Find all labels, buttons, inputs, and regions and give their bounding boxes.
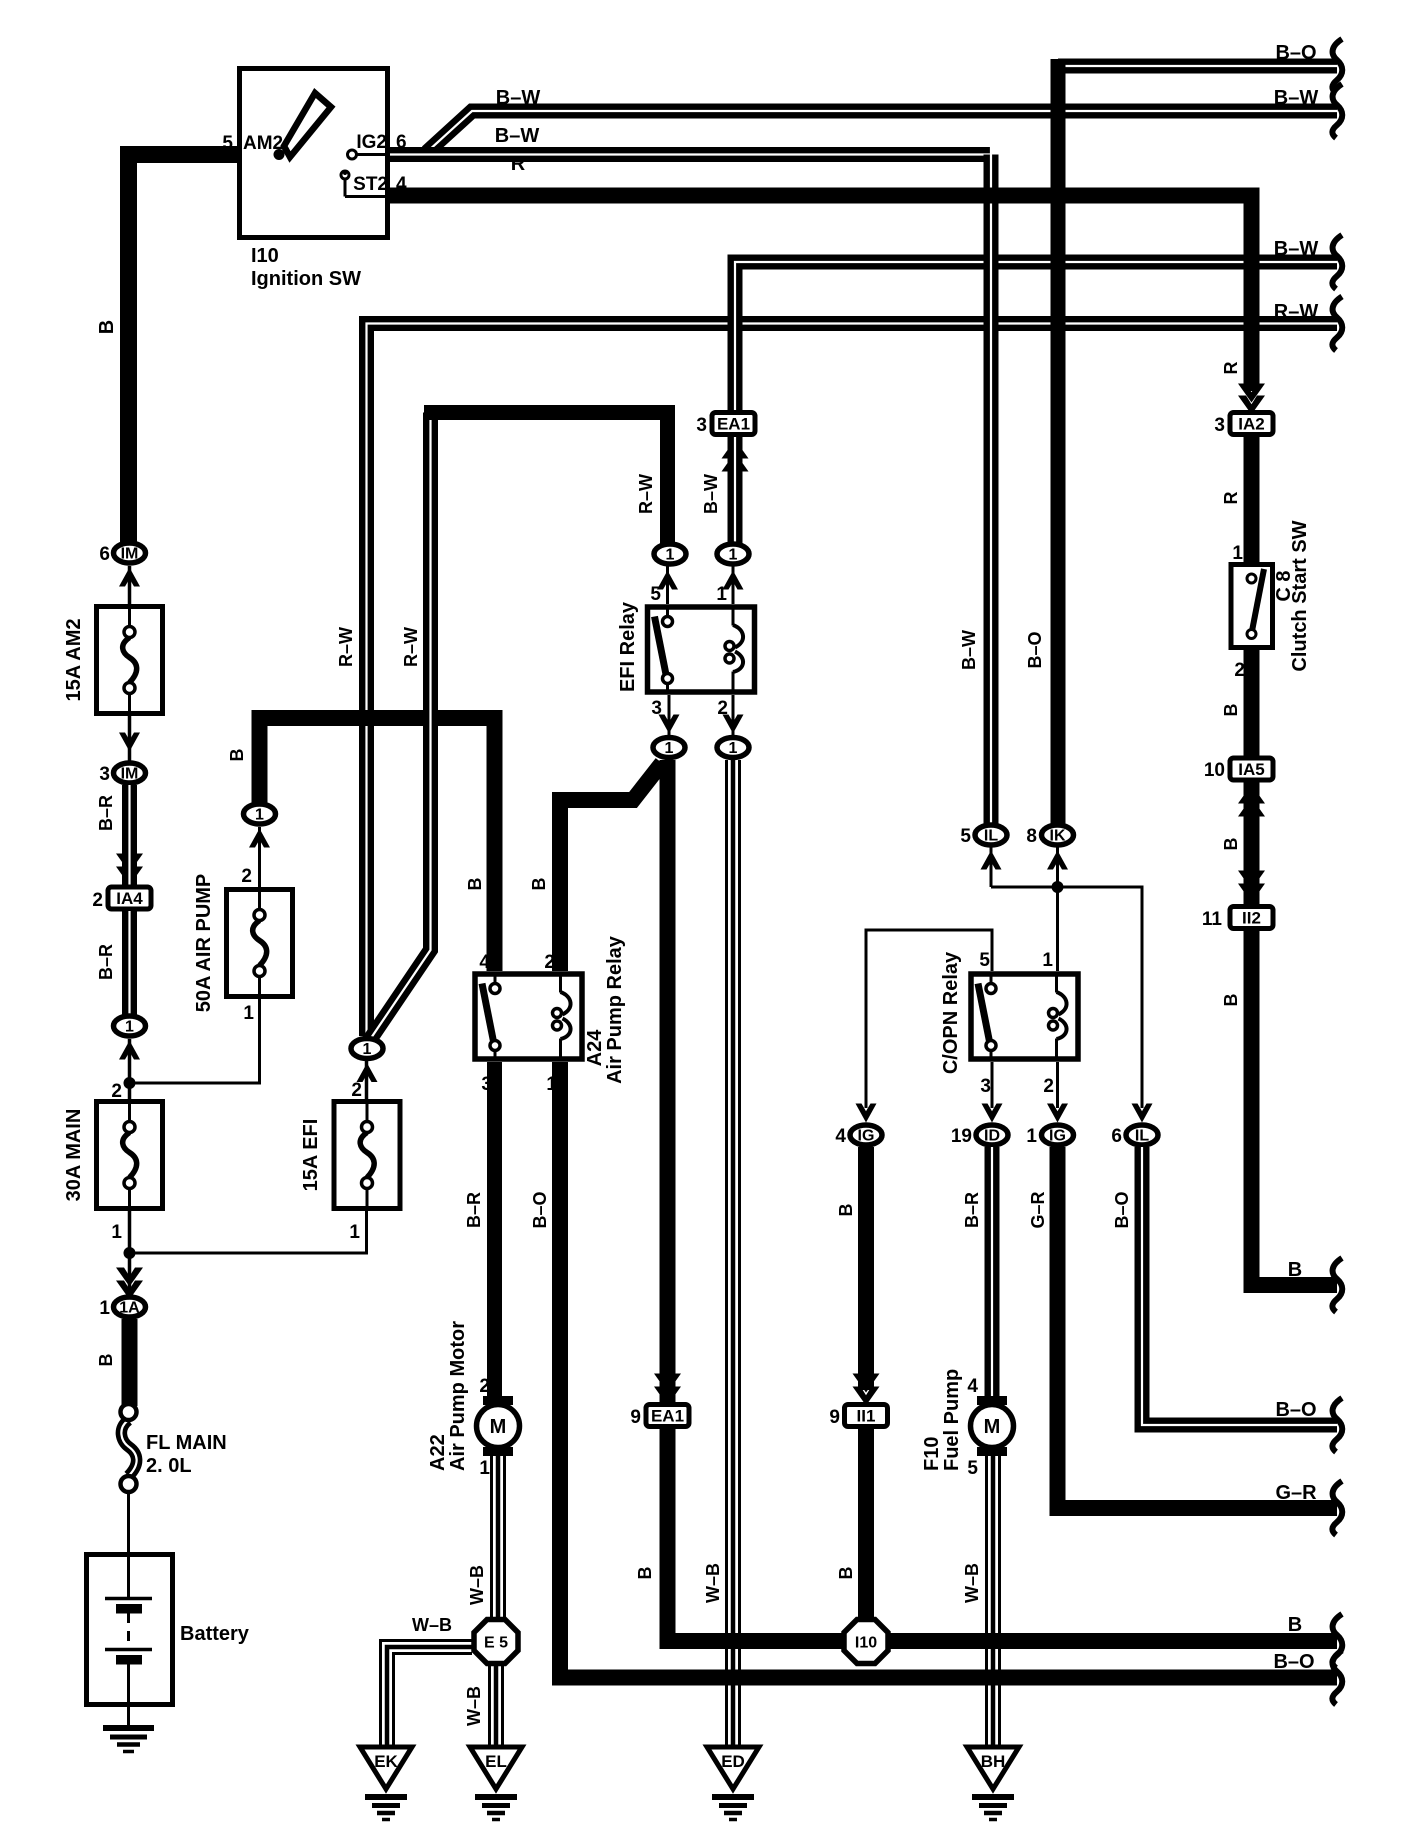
svg-text:4: 4 — [479, 952, 490, 973]
svg-text:A22: A22 — [427, 1434, 449, 1471]
svg-text:1: 1 — [729, 740, 738, 757]
svg-text:B: B — [1288, 1259, 1302, 1281]
fusible link FL MAIN 2.0L — [121, 1404, 227, 1492]
svg-text:IL: IL — [984, 828, 998, 845]
svg-text:ED: ED — [721, 1752, 745, 1771]
wire B-W vertical x991 from IG2 wire down to connector IL — [984, 147, 999, 825]
svg-text:1: 1 — [125, 1019, 134, 1036]
svg-text:R: R — [511, 153, 526, 175]
svg-text:B: B — [96, 1354, 116, 1367]
battery — [87, 1552, 250, 1707]
svg-text:19: 19 — [951, 1126, 972, 1147]
svg-text:1: 1 — [479, 1458, 490, 1479]
connector 2 IA4 — [92, 887, 151, 911]
svg-text:B: B — [465, 878, 485, 891]
wires thin below C/OPN to ovals — [992, 1062, 1058, 1108]
svg-text:B–R: B–R — [96, 795, 116, 831]
wire B from II1 down to I10 splice — [836, 1428, 866, 1618]
wire thin fuse to 3 IM — [128, 716, 132, 762]
svg-text:2: 2 — [544, 952, 555, 973]
svg-text:2: 2 — [1043, 1076, 1054, 1097]
svg-text:II1: II1 — [857, 1407, 876, 1426]
svg-text:1: 1 — [243, 1003, 254, 1024]
chevron into IM — [119, 568, 140, 587]
svg-text:4: 4 — [396, 174, 407, 195]
svg-text:B–W: B–W — [496, 87, 541, 109]
svg-text:Fuel Pump: Fuel Pump — [941, 1369, 963, 1471]
wire B from 50A oval up and right to air pump relay pin 4 — [227, 718, 495, 971]
svg-text:IA4: IA4 — [116, 889, 143, 908]
chevron below oval 1 — [119, 1041, 140, 1060]
svg-text:10: 10 — [1204, 760, 1225, 781]
wire R-W solid from EFI relay oval up and left — [424, 413, 668, 549]
svg-text:B: B — [1288, 1614, 1302, 1636]
wire B from EFI pin3 oval diagonal to air pump relay pin 2 — [529, 763, 662, 971]
wire B from ignition AM2 down left side to connector IM — [129, 155, 238, 544]
connector 4 IG — [835, 1125, 882, 1147]
connector oval 1 (left) — [114, 1016, 146, 1036]
svg-text:M: M — [984, 1416, 1001, 1438]
svg-text:8: 8 — [1026, 826, 1037, 847]
hook B bus y1640 — [1332, 1614, 1342, 1668]
svg-text:50A AIR PUMP: 50A AIR PUMP — [193, 874, 215, 1013]
svg-text:W–B: W–B — [467, 1565, 487, 1605]
svg-text:1: 1 — [255, 807, 264, 824]
relay A24 Air Pump Relay — [475, 935, 626, 1084]
wire B-R from A24 pin3 to air pump motor — [464, 1062, 495, 1398]
wire B between IA5 and II2 — [1221, 782, 1252, 905]
svg-text:1: 1 — [1232, 543, 1243, 564]
wire B-R from 19 ID down to fuel pump — [962, 1147, 992, 1398]
svg-text:W–B: W–B — [962, 1563, 982, 1603]
fuse 50A AIR PUMP — [193, 874, 293, 1013]
wire W-B from fuel pump to BH ground — [962, 1456, 1000, 1747]
connector 6 IM — [99, 543, 145, 565]
chevron into 3 IM — [119, 733, 140, 752]
svg-text:Clutch Start SW: Clutch Start SW — [1289, 520, 1311, 671]
hook B-W top — [1332, 84, 1342, 138]
svg-text:C/OPN Relay: C/OPN Relay — [940, 951, 962, 1074]
svg-text:1: 1 — [729, 547, 738, 564]
svg-text:IL: IL — [1135, 1128, 1149, 1145]
svg-text:1: 1 — [666, 547, 675, 564]
hook B-O top — [1332, 39, 1342, 93]
wire B from 4 IG down to II1 — [836, 1147, 866, 1390]
connector 8 IK — [1026, 825, 1073, 887]
svg-text:B–O: B–O — [530, 1191, 550, 1228]
wire thin C/OPN pin5 loop to 4 IG — [866, 930, 992, 1108]
wire thin junction to 15A EFI bottom — [130, 1211, 367, 1253]
svg-text:EFI Relay: EFI Relay — [617, 601, 639, 692]
hook B-O y1425 — [1332, 1398, 1342, 1452]
chevron below EFI fuse oval — [357, 1063, 378, 1082]
svg-text:5: 5 — [967, 1458, 978, 1479]
svg-text:B–W: B–W — [1274, 87, 1319, 109]
air pump motor A22 — [427, 1321, 520, 1479]
connector 9 II1 — [829, 1405, 887, 1429]
svg-text:2: 2 — [92, 890, 103, 911]
svg-text:B: B — [1221, 704, 1241, 717]
wire thin oval to 15A EFI fuse — [365, 1061, 369, 1100]
wire B-R from 3 IM to connector IA4 — [96, 785, 130, 886]
wire B-O from 6 IL down to right edge — [1112, 1147, 1337, 1425]
svg-text:B: B — [227, 749, 247, 762]
chevron double out of IA5 — [1238, 785, 1265, 817]
svg-text:IA5: IA5 — [1238, 760, 1264, 779]
connector oval 1 (EFI relay pin2 bottom) — [717, 738, 749, 758]
svg-text:B: B — [1221, 838, 1241, 851]
svg-text:5: 5 — [979, 950, 990, 971]
wire thin 50A oval to fuse — [258, 827, 261, 891]
svg-text:1: 1 — [1042, 950, 1053, 971]
svg-text:R–W: R–W — [1274, 301, 1319, 323]
ground ED — [707, 1747, 759, 1820]
svg-text:EK: EK — [374, 1752, 398, 1771]
svg-text:M: M — [490, 1416, 507, 1438]
svg-text:B–R: B–R — [464, 1192, 484, 1228]
wire B-W oval to EA1 (hollow over chevrons) — [728, 437, 743, 545]
svg-text:2: 2 — [351, 1080, 362, 1101]
wire B from C8 to IA5 — [1221, 650, 1252, 757]
connector 6 IL — [1111, 1125, 1158, 1147]
svg-text:FL MAIN: FL MAIN — [146, 1432, 227, 1454]
svg-text:IM: IM — [121, 546, 139, 563]
chevron double into II2 — [1238, 871, 1265, 903]
relay EFI Relay — [617, 584, 755, 719]
svg-text:1: 1 — [363, 1041, 372, 1058]
connector 3 EA1 box — [696, 413, 755, 437]
svg-text:B: B — [529, 878, 549, 891]
svg-text:B: B — [96, 320, 118, 334]
svg-text:3: 3 — [980, 1076, 991, 1097]
svg-text:II2: II2 — [1242, 909, 1261, 928]
svg-text:G–R: G–R — [1028, 1191, 1048, 1228]
svg-text:4: 4 — [967, 1376, 978, 1397]
svg-text:IG: IG — [1049, 1128, 1066, 1145]
hook B y1285 — [1332, 1258, 1342, 1312]
svg-text:R–W: R–W — [336, 627, 356, 667]
svg-text:IK: IK — [1050, 828, 1066, 845]
wire R from IA2 to clutch start switch — [1221, 437, 1252, 565]
svg-text:IM: IM — [121, 766, 139, 783]
connector 10 IA5 — [1204, 758, 1273, 781]
wire thin oval1 to fuse 30A with junction — [128, 1039, 132, 1100]
svg-text:4: 4 — [835, 1126, 846, 1147]
svg-text:BH: BH — [981, 1752, 1006, 1771]
connector 3 IM — [99, 763, 145, 785]
svg-text:B: B — [635, 1567, 655, 1580]
connector 19 ID — [951, 1125, 1008, 1147]
svg-text:6: 6 — [99, 544, 110, 565]
svg-text:R: R — [1221, 492, 1241, 505]
chevrons into IG ID IG IL ovals — [856, 1104, 1153, 1123]
svg-text:I10: I10 — [251, 245, 279, 267]
svg-text:1A: 1A — [119, 1300, 140, 1317]
wire thin splice row y887 — [991, 887, 1142, 1108]
svg-text:B–O: B–O — [1273, 1651, 1314, 1673]
svg-text:A24: A24 — [584, 1029, 606, 1067]
wire B-O vertical x1058 down to connector IK — [1051, 59, 1066, 825]
wire W-B from E5 left to EK ground — [381, 1615, 473, 1747]
ground BH — [967, 1747, 1019, 1820]
svg-text:B: B — [836, 1204, 856, 1217]
svg-text:B–W: B–W — [701, 474, 721, 514]
connector oval 1 (EFI relay pin1 top) — [717, 544, 749, 564]
wire B-W horizontal y262 and vertical down to connector EA1 top — [735, 262, 1337, 440]
splice E5 — [474, 1620, 518, 1664]
svg-text:2: 2 — [1234, 660, 1245, 681]
svg-text:5: 5 — [222, 133, 233, 154]
svg-text:1: 1 — [716, 584, 727, 605]
svg-text:B–O: B–O — [1275, 1399, 1316, 1421]
svg-text:ID: ID — [984, 1128, 1000, 1145]
svg-text:IA2: IA2 — [1238, 415, 1264, 434]
svg-text:I10: I10 — [855, 1635, 877, 1652]
hook B-W y262 — [1332, 235, 1342, 289]
svg-text:5: 5 — [960, 826, 971, 847]
wire W-B from air pump motor to E5 — [467, 1456, 505, 1618]
svg-text:15A AM2: 15A AM2 — [63, 619, 85, 702]
svg-text:2: 2 — [111, 1081, 122, 1102]
svg-text:G–R: G–R — [1275, 1482, 1317, 1504]
svg-text:R–W: R–W — [636, 474, 656, 514]
svg-text:B–W: B–W — [1274, 238, 1319, 260]
connector oval 1 (EFI relay pin3 bottom) — [653, 738, 685, 758]
svg-text:3: 3 — [1214, 415, 1225, 436]
svg-text:W–B: W–B — [412, 1615, 452, 1635]
wire B-R from IA4 down to oval 1 — [96, 911, 130, 1015]
ground EL — [470, 1747, 522, 1820]
ignition switch I10 — [222, 69, 407, 291]
svg-text:1: 1 — [665, 740, 674, 757]
wire thin junction to 50A fuse bottom — [130, 995, 260, 1083]
connector oval 1 (EFI fuse top) — [351, 1039, 383, 1059]
fuse 30A MAIN — [63, 1102, 163, 1209]
fuse 15A AM2 — [63, 607, 163, 714]
wire R-W horizontal y325 and left vertical down to EFI fuse oval — [367, 324, 1338, 1037]
chevron double into EA1 bottom — [654, 1374, 681, 1406]
svg-text:AM2: AM2 — [243, 133, 283, 154]
ground below battery — [103, 1707, 154, 1752]
svg-text:1: 1 — [99, 1298, 110, 1319]
svg-text:B: B — [836, 1567, 856, 1580]
wire G-R from 1 IG down to right edge — [1028, 1147, 1337, 1508]
svg-text:EA1: EA1 — [717, 415, 750, 434]
connector 1 1A — [99, 1297, 145, 1319]
hook G-R y1508 — [1332, 1481, 1342, 1535]
junction dot y1253 — [124, 1247, 136, 1259]
wire R from ignition ST2 to connector IA2 — [390, 196, 1252, 392]
chevrons below EFI top ovals — [657, 566, 744, 604]
hook R-W y325 — [1332, 297, 1342, 351]
wire B from EFI pin3 oval down through EA1 to bus — [635, 760, 1337, 1641]
svg-text:B–W: B–W — [959, 630, 979, 670]
svg-text:B–W: B–W — [495, 125, 540, 147]
svg-text:1: 1 — [111, 1222, 122, 1243]
svg-text:Ignition SW: Ignition SW — [251, 268, 361, 290]
connector oval 1 (EFI relay pin5 top) — [654, 544, 686, 564]
svg-text:1: 1 — [1026, 1126, 1037, 1147]
svg-text:B–R: B–R — [96, 944, 116, 980]
svg-text:B–O: B–O — [1275, 42, 1316, 64]
wire thin IM to fuse 15A AM2 — [128, 566, 132, 604]
svg-text:6: 6 — [396, 132, 407, 153]
chevron double into 1A — [116, 1268, 143, 1300]
connector 11 II2 — [1202, 907, 1273, 931]
svg-text:E 5: E 5 — [484, 1635, 508, 1652]
wire B from 1A to fusible link — [96, 1319, 130, 1406]
wire W-B from E5 down to EL ground — [464, 1665, 503, 1747]
wire B-W from IG2 horizontal to x990 — [390, 147, 991, 162]
connector 9 EA1 bottom — [630, 1405, 689, 1429]
chevron double into IA4 — [116, 854, 143, 886]
svg-text:B–R: B–R — [962, 1192, 982, 1228]
clutch start switch C 8 — [1231, 520, 1311, 681]
fuel pump F10 — [921, 1369, 1014, 1479]
svg-text:15A EFI: 15A EFI — [300, 1119, 322, 1192]
splice I10 — [844, 1620, 888, 1664]
svg-text:EL: EL — [485, 1752, 507, 1771]
svg-text:W–B: W–B — [703, 1563, 723, 1603]
connector 3 IA2 — [1214, 413, 1273, 437]
svg-text:6: 6 — [1111, 1126, 1122, 1147]
svg-text:IG: IG — [858, 1128, 875, 1145]
connector EA1 top with double chevron — [722, 440, 749, 472]
chevron double into II1 — [853, 1374, 880, 1406]
svg-text:11: 11 — [1202, 909, 1223, 930]
svg-text:3: 3 — [99, 764, 110, 785]
svg-text:5: 5 — [650, 584, 661, 605]
svg-text:9: 9 — [829, 1407, 840, 1428]
wire B-O top horizontal y66 — [1058, 59, 1337, 74]
svg-text:1: 1 — [349, 1222, 360, 1243]
ground EK — [360, 1747, 412, 1820]
svg-text:ST2: ST2 — [353, 174, 388, 195]
svg-text:EA1: EA1 — [651, 1407, 684, 1426]
svg-text:R: R — [1221, 362, 1241, 375]
chevron below 50A oval — [249, 829, 270, 848]
svg-text:R–W: R–W — [401, 627, 421, 667]
svg-text:2: 2 — [479, 1376, 490, 1397]
svg-text:Battery: Battery — [180, 1623, 250, 1645]
wire B-O from A24 pin1 down to bus — [530, 1062, 1337, 1678]
svg-text:2. 0L: 2. 0L — [146, 1455, 192, 1477]
svg-text:Air Pump Relay: Air Pump Relay — [604, 935, 626, 1084]
wire R-W second vertical with diagonal into EFI fuse oval — [369, 413, 431, 1042]
fuse 15A EFI — [300, 1102, 400, 1209]
svg-text:3: 3 — [696, 415, 707, 436]
svg-text:B–O: B–O — [1025, 631, 1045, 668]
junction dot y887 — [1052, 881, 1064, 893]
junction dot y1083 — [124, 1077, 136, 1089]
wire thin junction to C/OPN pin1 — [1056, 887, 1059, 971]
relay C/OPN Relay — [940, 950, 1078, 1097]
svg-text:B–O: B–O — [1112, 1191, 1132, 1228]
connector 5 IL — [960, 825, 1007, 887]
connector oval 1 (50A air pump) — [244, 804, 276, 824]
hook B-O bus y1677 — [1332, 1651, 1342, 1705]
wire B-W top horizontal with diagonal branch from ignition IG2 — [427, 111, 1337, 152]
wires thin below EFI relay to ovals — [659, 695, 744, 736]
chevron double into IA2 — [1238, 384, 1265, 415]
svg-text:B: B — [1221, 994, 1241, 1007]
svg-text:9: 9 — [630, 1407, 641, 1428]
svg-text:2: 2 — [241, 866, 252, 887]
wire W-B from EFI pin2 oval down to ED ground — [703, 760, 740, 1747]
wire B from II2 down to right edge — [1221, 930, 1337, 1285]
svg-text:Air Pump Motor: Air Pump Motor — [447, 1321, 469, 1471]
svg-text:30A MAIN: 30A MAIN — [63, 1109, 85, 1202]
connector 1 IG — [1026, 1125, 1073, 1147]
svg-text:F10: F10 — [921, 1437, 943, 1471]
svg-text:W–B: W–B — [464, 1686, 484, 1726]
wire thin FL to battery — [127, 1492, 130, 1552]
svg-text:IG2: IG2 — [356, 132, 387, 153]
wire thin 30A to junction 1253 — [128, 1211, 132, 1294]
